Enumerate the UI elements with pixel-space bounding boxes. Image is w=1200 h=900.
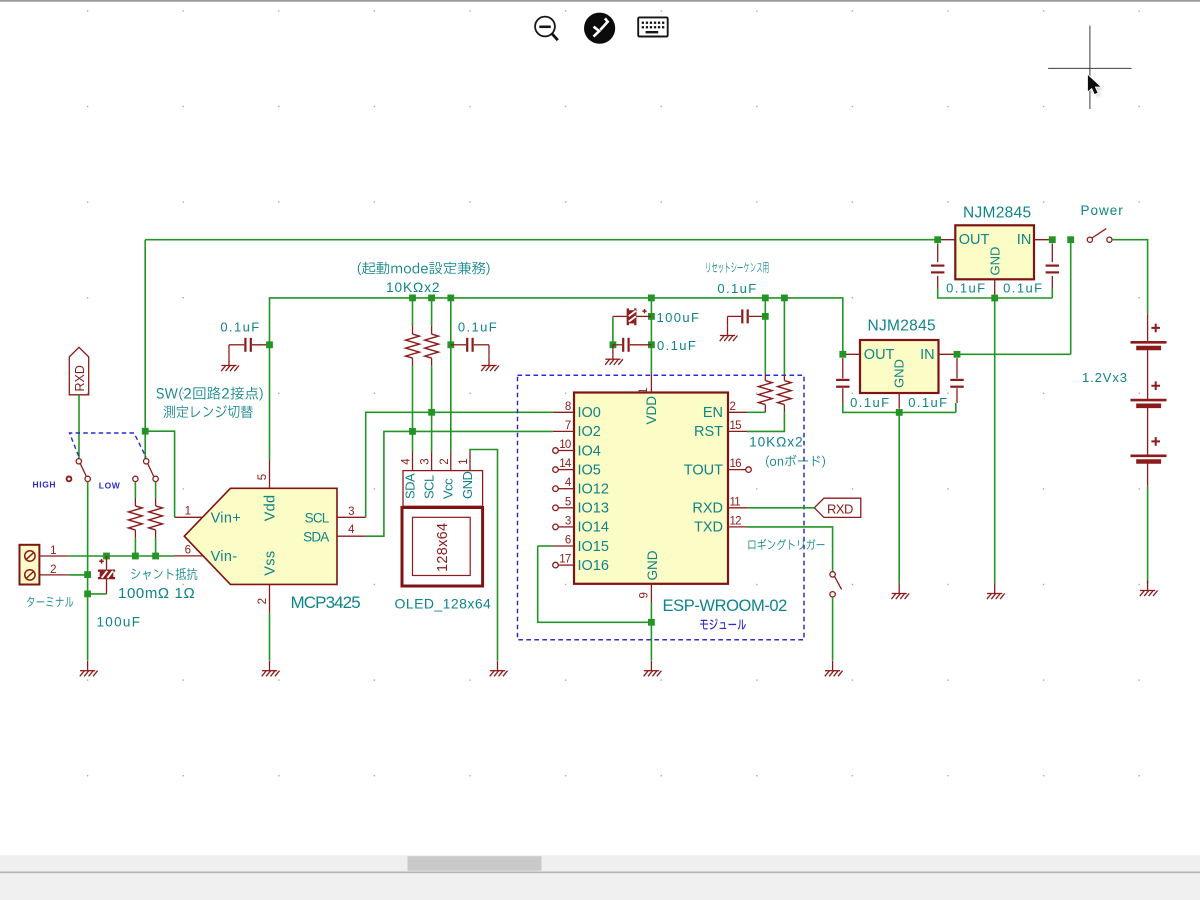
ground under NJM(lower) [891,584,909,599]
junction NJM(upper) OUT / 3.3V rail / cap [934,236,941,243]
ground under trigger switch [825,661,843,676]
pin ESP 17 IO16 stub [558,564,574,566]
svg-text:6: 6 [565,535,571,547]
svg-text:RXD: RXD [692,501,723,517]
pin C2 right lead [474,344,489,346]
wire ESP IO15 left [538,545,553,547]
regulator U NJM2845 (lower) body [860,340,939,393]
pin MCP 1 Vin+ [175,516,203,518]
svg-text:128x64: 128x64 [435,523,451,572]
wire SW2 throwB to shunt R-B [155,482,157,498]
ground under OLED [490,661,508,676]
svg-text:8: 8 [565,401,571,413]
svg-text:2: 2 [730,401,736,413]
resistor shunt R-A (100mOhm) [129,506,143,530]
svg-text:100uF: 100uF [97,615,142,630]
wire NJM(lower) ground rail [843,403,956,412]
pin R2 top lead [431,326,433,334]
pin C-out(lower) top lead [842,358,844,378]
ground under ESP [644,661,662,676]
svg-text:0.1uF: 0.1uF [908,395,948,410]
svg-text:IO14: IO14 [578,520,609,536]
wire shunt R-B to Vin- rail [155,538,157,556]
battery cell 3 [1131,454,1167,457]
svg-text:12: 12 [730,515,742,527]
wire R2 top [431,298,433,326]
pin 100uF top lead [106,556,108,569]
pin shunt R-A bottom lead [134,530,136,538]
label terminal (katakana) [27,597,73,607]
pin NJM(lower) IN [939,353,958,355]
pin R1 top lead [412,326,414,334]
wire down to ground [87,594,89,661]
junction terminal pin2 / SW1 [84,571,91,578]
svg-text:10KΩx2: 10KΩx2 [386,280,440,295]
pin NJM(upper) OUT [938,239,956,241]
top edge line [0,0,1200,2]
pin shunt R-B top lead [155,498,157,506]
pin ESP 14 IO5 stub [558,469,574,471]
svg-text:HIGH: HIGH [33,480,57,490]
pin ESP 10 IO4 stub [558,450,574,452]
wire Vdd rail down to ESP VDD [650,298,652,374]
pin C-out(upper) top lead [937,244,939,263]
svg-text:MCP3425: MCP3425 [291,593,361,612]
svg-text:3: 3 [348,506,354,518]
svg-text:6: 6 [185,544,191,556]
pin ESP 3 IO14 stub [558,526,574,528]
ground under C2 [481,356,499,371]
hierarchical label RXD (to ESP RXD) [814,498,861,517]
pin ESP 16 TOUT stub [728,469,746,471]
battery cell 1 [1131,341,1167,344]
pin C2 to ground stub [488,345,490,356]
svg-text:10: 10 [559,439,571,451]
wire 100uF to ground net [88,593,107,595]
wire R1 top [412,298,414,326]
mouse pointer [1091,78,1103,97]
capacitor 0.1uF NJM(lower) IN [950,380,963,387]
switch logging-trigger top contact [830,572,835,577]
wire RXD flag to SW1 common [78,395,80,459]
wire ESP RXD to label [747,507,814,509]
pin C1 to ground stub [228,345,230,356]
label (reset sequence用) [706,262,768,273]
svg-text:11: 11 [730,496,741,508]
junction IO0 net / R2 [428,409,435,416]
svg-text:NJM2845: NJM2845 [868,318,936,335]
svg-text:0.1uF: 0.1uF [458,319,498,334]
pin C2 left lead [451,344,466,346]
svg-text:RST: RST [694,424,723,440]
svg-text:0.1uF: 0.1uF [1003,281,1043,296]
op-amp/ADC U MCP3425 body [184,488,337,584]
pin R4 bottom lead [783,405,785,413]
ground under C-reset [720,326,738,341]
junction NJM(lower) OUT / Vdd rail / cap [839,351,846,358]
pin ESP 11 RXD [728,507,747,509]
capacitor 0.1uF NJM(upper) IN [1046,266,1059,273]
wire SW1 throw down to terminal pin2 net [87,482,89,575]
svg-text:IO2: IO2 [578,424,601,440]
wire down to 100uF return [87,575,89,594]
pin R2 bottom lead [431,358,433,366]
junction ground side of ESP caps [610,341,617,348]
pin OLED 1 GND stub [469,452,471,471]
pin shunt R-B bottom lead [155,530,157,538]
switch SW2 throw A [133,476,138,481]
pin battery cell1 top lead [1147,313,1149,341]
label module (katakana, blue) [700,619,746,630]
pin battery cell1-cell2 [1147,349,1149,399]
pin R1 bottom lead [412,358,414,366]
pin battery cell2-cell3 [1147,407,1149,455]
wire power switch to battery + [1112,240,1148,314]
svg-text:0.1uF: 0.1uF [850,395,890,410]
svg-text:9: 9 [639,592,651,598]
label SW(2kairo 2setten) [156,387,262,401]
wire battery net down to NJM(lower) IN [1070,240,1072,355]
svg-text:0.1uF: 0.1uF [220,319,260,334]
junction NJM(upper) IN / lower IN drop [1067,236,1074,243]
svg-text:100mΩ 1Ω: 100mΩ 1Ω [118,585,195,602]
switch logging-trigger bottom contact [830,592,835,597]
pin ESP 15 RST [728,430,747,432]
svg-text:IO0: IO0 [578,405,601,421]
switch SW2 throw B [153,476,158,481]
svg-text:SCL: SCL [305,511,330,526]
pin R4 top lead [783,374,785,381]
pin OLED 4 SDA stub [412,452,414,471]
hierarchical label RXD (left flag) [69,347,88,395]
ground under C1 [221,356,239,371]
svg-text:SCL: SCL [421,475,436,499]
wire SCL / IO0 net [366,412,553,517]
pin battery cell3 bottom lead [1147,463,1149,487]
capacitor C1 0.1uF (MCP Vdd decoupling) [245,338,250,352]
svg-text:Vin+: Vin+ [211,511,241,527]
svg-text:RXD: RXD [73,365,87,391]
svg-text:4: 4 [348,524,355,536]
svg-text:17: 17 [559,554,571,566]
svg-text:LOW: LOW [99,481,121,491]
pin C-in(lower) top lead [956,358,958,378]
junction ESP GND / IO15 strap [648,619,655,626]
battery cell 2 [1131,399,1167,402]
icon remote-desktop (black circle) [584,13,615,44]
svg-text:TOUT: TOUT [684,462,723,478]
wire OLED GND to ground [470,450,498,661]
pin R3 bottom lead [764,405,766,413]
svg-text:SDA: SDA [303,530,329,545]
svg-text:ESP-WROOM-02: ESP-WROOM-02 [663,597,788,615]
wire 100uF- to 0.1uF- [612,316,614,344]
switch Power arm [1092,229,1106,238]
pin terminal 1 [39,555,68,557]
pin C-in(upper) bottom lead [1051,276,1053,289]
svg-text:100uF: 100uF [657,310,701,325]
svg-text:1: 1 [185,505,191,517]
wire SW2 common to MCP Vin+ [145,431,174,517]
switch Power right contact [1107,237,1112,242]
junction Vdd rail / R3 [762,295,769,302]
switch SW1 arm [80,464,86,477]
junction IO2 net / R1 [409,428,416,435]
pin ESP 7 IO2 [553,430,574,432]
pin caps to ground stub [612,345,614,350]
pin C-in(upper) top lead [1051,244,1053,263]
icon zoom-out (magnifier) [535,17,558,41]
pin ESP 3 open-circle [553,524,559,530]
svg-text:1: 1 [50,545,56,557]
wire C-in(lower) bottom corner [955,403,957,412]
svg-text:VDD: VDD [644,396,659,425]
capacitor 100uF (polarized, input filter) [98,571,115,579]
resistor R4 10K (RST pull-up) [778,381,792,405]
svg-text:GND: GND [460,472,475,500]
wire shunt R-A to Vin- rail [134,538,136,556]
wire IO0/SCL down to OLED SCL [431,412,433,451]
switch SW1 throw HIGH (open) [67,477,72,482]
bottom panel [0,873,1200,900]
pin OLED 2 Vcc stub [450,452,452,471]
pin ESP 1 VDD [650,373,652,392]
svg-text:4: 4 [401,458,413,465]
junction NJM(upper) IN / cap [1049,236,1056,243]
pin 100uF(ESP) right lead [636,315,651,317]
pin 100uF(ESP) left lead [613,315,627,317]
svg-text:0.1uF: 0.1uF [946,281,986,296]
switch SW2 arm [148,464,154,477]
svg-text:SDA: SDA [402,473,417,499]
svg-text:14: 14 [559,458,572,470]
switch logging-trigger arm [835,577,842,590]
label sokutei range kirikae [164,405,253,418]
pin C1 right lead [252,344,270,346]
label (on board) [766,455,825,468]
switch SW1 common contact [76,459,81,464]
label shunt teikou [131,568,197,580]
label (kidou mode settei kenmu) [358,262,490,276]
pin ESP 8 IO0 [553,411,574,413]
pin C-out(upper) bottom lead [937,276,939,289]
capacitor 0.1uF NJM(upper) OUT [931,266,944,273]
switch SW1 throw LOW [85,476,90,481]
horizontal scrollbar track [0,855,1200,872]
pin MCP 6 Vin- [174,555,203,557]
wire R3 top (EN pull-up) [764,298,766,374]
junction Vdd rail / ESP VDD [648,295,655,302]
pin ESP 16 open-circle [746,467,752,473]
pin ESP 6 IO15 [553,545,574,547]
junction Vdd rail / R4 [781,295,788,302]
resistor R2 10K pull-up [425,334,439,358]
svg-text:Power: Power [1081,203,1124,218]
svg-text:10KΩx2: 10KΩx2 [749,435,803,450]
svg-text:2: 2 [50,564,56,576]
junction C-reset / EN column [762,313,769,320]
pin ESP 4 open-circle [553,486,559,492]
svg-text:5: 5 [565,496,571,508]
wire Vdd rail down to OLED Vcc [450,298,452,452]
wire R1 bottom to IO2 net [412,366,414,431]
ground under NJM(upper) [987,584,1005,599]
regulator U NJM2845 (upper) body [955,225,1034,279]
pin R3 top lead [764,374,766,381]
svg-text:IO16: IO16 [578,558,609,574]
switch Power left contact [1087,237,1092,242]
wire C-in(upper) bottom corner [1051,289,1053,299]
terminal block J1 (2P) [20,545,40,585]
ground under battery [1140,581,1158,596]
wire ESP TXD to trigger switch [747,527,833,572]
pin OLED 3 SCL stub [431,452,433,471]
pin MCP 3 SCL [337,516,366,518]
junction C1 / Vdd column [266,341,273,348]
svg-text:IN: IN [920,347,935,363]
junction Vdd rail / OLED Vcc drop [447,295,454,302]
display OLED pin header box [403,471,483,507]
pin ESP 4 IO12 stub [558,488,574,490]
svg-text:1: 1 [638,388,650,394]
pin 0.1uF(ESP) right lead [630,344,652,346]
crosshair cursor (editor) [1048,26,1131,109]
svg-text:1.2Vx3: 1.2Vx3 [1082,370,1128,385]
pin C-reset left lead [728,315,742,317]
junction NJM(lower) GND [896,409,903,416]
svg-text:Vdd: Vdd [263,495,279,522]
resistor R3 10K (EN pull-up) [758,381,772,405]
pin ESP 17 open-circle [553,562,559,568]
wire SDA / IO2 net [366,431,553,536]
pin NJM(lower) OUT [843,353,860,355]
module U ESP-WROOM-02 body [574,393,728,584]
dashed outline ESP-WROOM-02 module (blue) [518,375,805,640]
pin NJM(upper) GND [994,279,996,295]
junction 100uF / ESP VDD column [648,313,655,320]
svg-text:2: 2 [439,458,451,464]
junction 100uF negative [84,591,91,598]
svg-text:GND: GND [645,550,660,580]
pin 0.1uF(ESP) left lead [613,344,622,346]
junction NJM(lower) IN / cap [954,351,961,358]
junction Vdd rail / R1 [409,295,416,302]
wire vertical drop to range switch [144,240,146,432]
wire battery - to ground [1147,487,1149,584]
capacitor 0.1uF (ESP decoupling) [623,338,628,352]
wire Vdd rail (3.3V) from MCP pin5 to NJM2845(lower) OUT [270,298,843,460]
wire NJM(upper) GND to ground [994,298,996,584]
svg-text:OUT: OUT [864,347,895,363]
pin C1 left lead [229,344,244,346]
svg-text:5: 5 [257,474,269,480]
ground under terminal [80,661,98,676]
wire terminal1 to MCP Vin- (shunt rail) [69,555,175,557]
svg-text:3: 3 [420,458,432,464]
wire NJM(upper) ground rail [938,289,1053,299]
svg-text:IO12: IO12 [578,482,609,498]
ground under MCP3425 [262,661,280,676]
svg-text:IO13: IO13 [578,501,609,517]
svg-text:1: 1 [458,458,470,464]
resistor R1 10K pull-up [406,334,420,358]
wire 3.3V rail from NJM2845 OUT (top) [145,239,938,241]
svg-text:IO15: IO15 [578,539,609,555]
pin MCP 5 Vdd [269,460,271,489]
icon keyboard [638,17,668,36]
svg-text:Vss: Vss [263,551,279,576]
pin ESP 14 open-circle [553,467,559,473]
resistor shunt R-B (1Ohm) [149,506,163,530]
wire R3 to ESP EN [747,411,765,413]
svg-text:GND: GND [892,359,907,388]
horizontal scrollbar thumb [408,856,542,871]
svg-text:NJM2845: NJM2845 [963,205,1031,222]
pin NJM(lower) GND [898,393,900,409]
pin C-reset right lead [749,315,765,317]
pin 100uF bottom lead [106,578,108,594]
junction shunt R-A [132,553,139,560]
wire terminal2 to SW1 net [69,574,88,576]
svg-text:TXD: TXD [694,520,723,536]
label logging trigger (katakana) [748,539,824,550]
junction NJM(upper) GND [991,295,998,302]
grid dots [87,10,1140,776]
wire NJM(lower) GND to ground [898,412,900,583]
display OLED screen inner rect [413,517,471,575]
pin ESP 5 open-circle [553,505,559,511]
svg-text:7: 7 [565,420,571,432]
svg-text:2: 2 [257,598,269,604]
capacitor C2 0.1uF (OLED decoupling) [467,338,472,352]
svg-text:Vin-: Vin- [211,549,238,565]
junction C2 / OLED Vcc column [447,341,454,348]
wire R4 top (RST pull-up) [783,298,785,374]
pin NJM(upper) IN [1034,239,1052,241]
wire IO2/SDA down to OLED SDA [412,431,414,451]
pin MCP 4 SDA [337,535,366,537]
switch SW2 common contact [144,459,149,464]
svg-text:0.1uF: 0.1uF [657,338,697,353]
capacitor 100uF (ESP bulk, polarized) [628,308,636,325]
capacitor 0.1uF NJM(lower) OUT [836,380,849,387]
mechanical link of DPDT switch (dashed) [70,433,147,458]
wire trigger switch to ground [832,597,834,661]
svg-text:16: 16 [730,458,742,470]
svg-text:Vcc: Vcc [441,478,456,499]
pin ESP 10 open-circle [553,448,559,454]
svg-text:IO4: IO4 [578,443,601,459]
junction Vdd rail / R2 [428,295,435,302]
wire ESP GND to ground [650,603,652,661]
ground under ESP caps [605,349,623,364]
wire SW2 throwA to shunt R-A [134,482,136,498]
svg-text:15: 15 [730,420,742,432]
svg-text:IN: IN [1017,232,1032,248]
pin MCP 2 Vss [269,584,271,613]
junction at range switch SW2 common [142,428,149,435]
svg-text:OUT: OUT [959,232,990,248]
pin ESP 2 EN [728,411,747,413]
pin ESP 12 TXD [728,526,747,528]
wire R2 bottom to IO0 net [431,366,433,412]
svg-text:0.1uF: 0.1uF [717,281,757,296]
wire MCP Vss to ground [269,613,271,661]
bottom divider line [0,872,1200,874]
junction 100uF top [103,553,110,560]
pin ESP 5 IO13 stub [558,507,574,509]
svg-text:IO5: IO5 [578,462,601,478]
